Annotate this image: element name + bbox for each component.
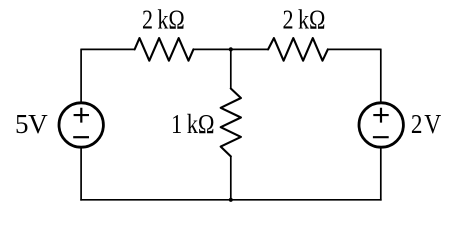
- svg-text:1 kΩ: 1 kΩ: [171, 109, 215, 139]
- wire right vertical lower: [380, 148, 382, 201]
- svg-text:2 kΩ: 2 kΩ: [142, 5, 185, 35]
- node junction dot bottom: [229, 198, 233, 202]
- voltage source V1 circle: [59, 103, 103, 147]
- wire middle vertical lower: [230, 156, 232, 199]
- resistor R2 2k ohm zigzag: [268, 38, 328, 61]
- svg-text:5: 5: [15, 109, 29, 139]
- svg-text:V: V: [28, 109, 48, 139]
- svg-text:2 kΩ: 2 kΩ: [283, 5, 326, 35]
- svg-text:V: V: [424, 109, 441, 139]
- V1 minus sign: [73, 136, 89, 138]
- wire bottom horizontal: [80, 199, 381, 201]
- wire right vertical upper: [380, 49, 382, 103]
- resistor R1 2k ohm zigzag: [135, 38, 194, 61]
- wire left vertical upper: [80, 49, 82, 103]
- wire middle vertical upper: [230, 49, 232, 88]
- voltage source V2 circle: [359, 103, 403, 147]
- wire top-left horizontal: [81, 48, 135, 50]
- svg-text:2: 2: [411, 109, 423, 139]
- node junction dot top: [229, 47, 233, 51]
- V2 minus sign: [373, 136, 389, 138]
- V2 plus sign: [373, 108, 388, 123]
- V1 plus sign: [74, 108, 89, 123]
- wire top-right horizontal: [328, 48, 381, 50]
- wire left vertical lower: [80, 148, 82, 201]
- wire top-middle horizontal: [193, 48, 268, 50]
- resistor R3 1k ohm vertical zigzag: [221, 89, 241, 157]
